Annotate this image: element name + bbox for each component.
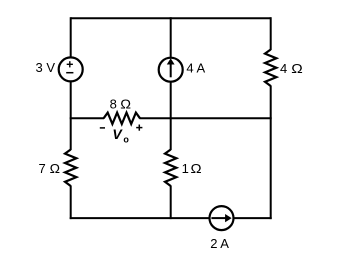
wire middle horizontal left [70, 117, 104, 119]
svg-text:4: 4 [280, 61, 287, 76]
label minus of Vo [100, 127, 105, 129]
svg-text:Ω: Ω [291, 61, 303, 76]
wire left vertical lower [70, 186, 72, 220]
wire right vertical lower [270, 86, 272, 220]
resistor R7 7ohm [65, 150, 76, 187]
svg-text:7: 7 [39, 161, 46, 176]
resistor R4 4ohm [265, 50, 276, 87]
resistor R2 1ohm [165, 150, 176, 187]
wire top horizontal [71, 17, 271, 19]
current source I1 4A [159, 58, 183, 82]
wire bottom horizontal right [234, 217, 272, 219]
wire middle vertical mid [170, 82, 172, 150]
wire left vertical upper [70, 17, 72, 57]
svg-text:2 A: 2 A [210, 236, 229, 251]
wire middle vertical upper [170, 17, 172, 57]
svg-text:3 V: 3 V [36, 60, 56, 75]
svg-text:1: 1 [182, 161, 189, 176]
wire right vertical upper [270, 17, 272, 50]
svg-text:Ω: Ω [120, 97, 131, 112]
wire middle vertical lower [170, 186, 172, 220]
wire bottom horizontal left [70, 217, 210, 219]
svg-text:4 A: 4 A [186, 61, 205, 76]
label plus of Vo [136, 125, 142, 131]
svg-text:Ω: Ω [191, 161, 202, 176]
wire middle horizontal right [140, 117, 272, 119]
svg-text:o: o [123, 135, 129, 145]
svg-text:Ω: Ω [50, 161, 61, 176]
resistor R8 8ohm [104, 113, 140, 124]
svg-text:8: 8 [110, 97, 117, 112]
voltage source V1 3V [59, 57, 83, 81]
wire left vertical middle [70, 81, 72, 150]
current source I2 2A [210, 206, 234, 230]
